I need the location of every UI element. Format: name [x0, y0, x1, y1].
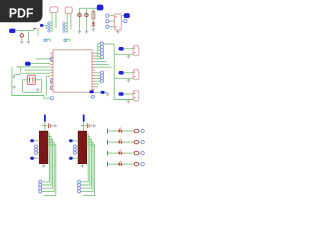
net circles T2 bottom — [78, 180, 81, 183]
IC U1 body — [53, 50, 92, 92]
resistor R5 body — [92, 11, 95, 19]
net circle IC bottom — [92, 96, 95, 99]
capacitor C1 — [78, 13, 81, 16]
IC U1 right pins — [92, 52, 95, 54]
power blob P1 — [119, 47, 124, 51]
wire pin r13 — [95, 83, 99, 85]
capacitor C2 — [85, 13, 88, 16]
wire T2 cap branch — [84, 125, 87, 127]
PDF badge text — [10, 8, 17, 17]
wire T1 pin a — [34, 140, 40, 142]
ground outer loop — [13, 86, 16, 89]
connector J2 body — [65, 7, 72, 13]
wire row3 a — [108, 152, 119, 154]
pin stub red — [34, 28, 37, 30]
resistor R2 body — [134, 140, 138, 143]
wire T2 sec3 — [81, 139, 92, 188]
connector P2 pin marks — [134, 72, 135, 73]
wire P2 pin1 — [124, 72, 134, 74]
net circle row1 — [141, 129, 144, 132]
regulator U2 body — [114, 14, 121, 30]
ground under C1 — [78, 30, 81, 33]
ground T2 body — [81, 164, 84, 167]
wires pins r9-r12 — [95, 72, 101, 74]
wire to ground bottom — [105, 91, 108, 93]
ground P2 — [127, 79, 130, 82]
wire pin r4 — [95, 61, 107, 63]
wire row2 a — [108, 141, 119, 143]
wire T2 sec1 — [81, 134, 88, 182]
ground left mid — [12, 75, 15, 78]
wire vert left — [20, 67, 22, 75]
net label circle p2 — [50, 86, 53, 89]
wire f vert — [45, 77, 47, 96]
wire T1 sec4 — [42, 142, 54, 191]
wire left rail up — [34, 29, 35, 31]
capacitor C3 — [20, 34, 23, 37]
net circles col1 — [100, 42, 103, 45]
connector P1 body — [133, 45, 139, 55]
stubs T2 left circles — [76, 145, 78, 147]
wire J1 pin1 down — [51, 13, 53, 32]
terminator bar row4 — [107, 162, 109, 167]
wire diode D1 drop — [92, 8, 94, 27]
ground T1 body — [42, 164, 45, 167]
net label circle p1 — [50, 80, 53, 83]
bus entries J2 (blue rings) — [63, 22, 65, 24]
net circles T1 left — [35, 145, 38, 148]
wire pin r14 — [95, 86, 98, 88]
wire label bus1 — [97, 44, 99, 57]
stubs T1 left circles — [38, 145, 40, 147]
crystal Y1 body — [27, 75, 35, 84]
wire row4 b — [122, 163, 134, 165]
ground under Y1 — [36, 88, 39, 91]
wire P2 pin2 — [114, 77, 133, 79]
wire bus a — [36, 58, 51, 60]
wire bus2 top link — [104, 43, 114, 45]
wire cap C3 drop — [21, 31, 23, 34]
ground T1 cap — [54, 124, 57, 127]
power blob mid — [25, 62, 31, 66]
ground T2 cap — [92, 124, 95, 127]
wire pin r5 — [95, 63, 109, 65]
wire bus c — [18, 66, 51, 68]
wire U2-3 — [109, 26, 114, 28]
wire T2 power drop — [83, 122, 85, 132]
transformer T2 body — [78, 131, 86, 163]
ground under C3 — [20, 40, 23, 43]
wire Y1 right — [35, 80, 41, 93]
net circle row3 — [141, 151, 144, 154]
connector P1 pin marks — [134, 48, 135, 49]
power blob P3 — [119, 92, 124, 96]
IC U1 left pins — [50, 52, 53, 54]
wire U2 out — [121, 15, 124, 17]
wire J2 pin2 down — [70, 13, 72, 29]
wire bus d — [24, 69, 50, 71]
wire row1 c — [139, 130, 141, 132]
wire cap C2 drop — [85, 8, 87, 30]
power blob U2 out — [124, 13, 130, 18]
U2 inner pin marks — [115, 16, 116, 17]
pin tick T1 — [43, 124, 46, 126]
ground U2 — [116, 30, 119, 33]
wire U2 out2 — [121, 20, 123, 22]
wire P1 pin1 — [124, 48, 134, 50]
net label circle loop — [50, 97, 53, 100]
wire J2 pin1 down — [66, 13, 68, 33]
wire Y1 bottom — [22, 91, 41, 93]
wire T2 cap to gnd — [90, 125, 92, 127]
wire T1 cap to gnd — [51, 125, 53, 127]
PDF badge — [0, 0, 43, 22]
wire T1 sec3 — [42, 139, 53, 188]
ground under D1 — [92, 28, 95, 31]
net label circle U2-1 — [106, 14, 109, 17]
wire T1 pin b — [34, 157, 40, 159]
wire T1 cap branch — [45, 125, 48, 127]
resistor R3 body — [134, 151, 138, 154]
net circle row4 — [141, 163, 144, 166]
wire P1 pin2 — [114, 53, 133, 55]
terminator bar row1 — [107, 129, 109, 134]
net circles T2 left — [73, 145, 76, 148]
capacitor T1 — [48, 123, 50, 128]
wire left rail — [15, 30, 33, 32]
wire pin r1 — [95, 52, 98, 54]
LED D4 — [119, 140, 122, 143]
wire T1 sec2 — [42, 137, 51, 185]
crystal Y1 plates — [29, 77, 31, 82]
power tick T2 — [83, 115, 85, 122]
connector J1 body — [50, 7, 58, 13]
power blob IC bottom2 — [101, 91, 105, 94]
power blob P2 — [119, 71, 124, 75]
wire T1 power drop — [44, 122, 46, 132]
wire row4 c — [139, 163, 141, 165]
wire row1 b — [122, 130, 134, 132]
connector P3 pin marks — [134, 93, 135, 94]
wire U2-1 — [109, 15, 114, 17]
pin blob T2 b — [69, 157, 73, 160]
wire bus b — [31, 63, 51, 65]
ground P3 — [127, 100, 130, 103]
connector P3 body — [133, 91, 139, 101]
wire T2 shield — [83, 145, 95, 196]
wire P3 pin1 — [124, 93, 134, 95]
wire pin r3 — [95, 58, 104, 60]
wire pin r2 — [95, 55, 98, 57]
test point TP1 circle — [44, 39, 47, 42]
pin blob T2 a — [69, 139, 73, 142]
wire row1 a — [108, 130, 119, 132]
wire Y1 left — [22, 80, 27, 93]
wire IC bottom link — [95, 91, 101, 93]
stubs label bus1 — [98, 43, 101, 45]
stray wire below badge — [37, 28, 39, 36]
LED D5 — [119, 151, 122, 154]
junction diamond — [17, 66, 19, 68]
wire row4 a — [108, 163, 119, 165]
wire T1 sec1 — [42, 134, 49, 182]
wire bus e — [22, 72, 50, 74]
net circles T1 bottom — [39, 180, 42, 183]
wire T1 shield — [44, 145, 56, 196]
power blob IC corner — [89, 90, 93, 93]
wire T2 sec4 — [81, 142, 93, 191]
test point TP2 circle — [64, 39, 67, 42]
test point TP1 loop — [47, 39, 50, 41]
resistor R1 body — [134, 129, 138, 132]
pin blob T1 b — [30, 157, 34, 160]
wire J1 pin2 down — [55, 13, 57, 29]
pin blob T1 a — [30, 139, 34, 142]
wire from power blob — [43, 25, 46, 28]
wire cap C1 drop — [79, 8, 81, 30]
wire T2 sec2 — [81, 137, 90, 185]
wire row2 c — [139, 141, 141, 143]
ground IC bottom — [106, 93, 109, 96]
net label circle U2-3 — [106, 25, 109, 28]
net label circle a — [50, 57, 53, 60]
ground P1 — [127, 55, 130, 58]
wire gnd stub — [14, 74, 21, 76]
power symbol VCC blob — [97, 5, 104, 11]
capacitor T2 — [86, 123, 88, 128]
terminator bar row3 — [107, 151, 109, 156]
wire T2 pin a — [73, 140, 79, 142]
pin tick T2 — [81, 124, 84, 126]
net circles col2 — [100, 71, 103, 74]
net circle row2 — [141, 140, 144, 143]
connector P2 body — [133, 69, 139, 79]
wire U2-2 — [109, 20, 114, 22]
wire bus f — [46, 76, 50, 78]
stubs J1 dashes — [50, 22, 52, 24]
wire bus2 vertical — [113, 44, 115, 100]
wire row3 b — [122, 152, 134, 154]
LED D6 — [119, 163, 122, 166]
power tick T1 — [44, 115, 46, 122]
wire outer loop — [12, 67, 50, 98]
wire row3 c — [139, 152, 141, 154]
wire pin r6 — [95, 66, 112, 68]
terminator bar row2 — [107, 140, 109, 145]
ground right drop — [27, 40, 30, 43]
LED D3 — [119, 129, 122, 132]
wire row2 b — [122, 141, 134, 143]
bus entries J1 (blue rings) — [48, 22, 50, 24]
ground under C2 — [85, 30, 88, 33]
test point TP2 loop — [67, 39, 70, 41]
stubs J2 dashes — [65, 22, 67, 24]
wire T2 pin b — [73, 157, 79, 159]
power blob near badge — [40, 24, 43, 27]
wire P3 pin2 — [114, 99, 133, 101]
net label circle U2-2 — [106, 20, 109, 23]
transformer T1 body — [39, 131, 47, 163]
wire drop right — [28, 31, 30, 41]
power blob left — [9, 29, 15, 33]
diode D2 — [92, 22, 95, 25]
net label circle U2 out2 — [124, 20, 127, 23]
resistor R4 body — [134, 163, 138, 166]
wire power rail — [80, 7, 98, 9]
